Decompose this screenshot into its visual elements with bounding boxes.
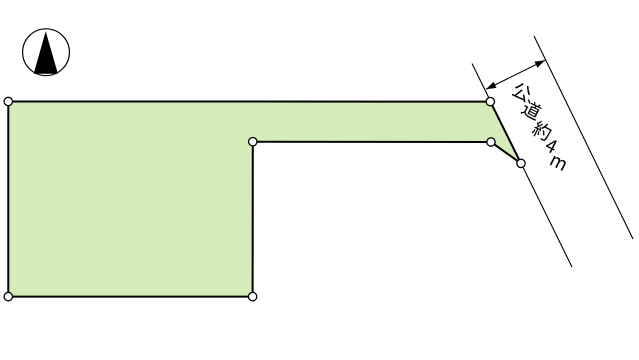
vertex circle F <box>248 292 256 300</box>
compass circle <box>23 29 70 76</box>
vertex circle A <box>4 97 12 105</box>
compass north triangle <box>34 31 58 74</box>
vertex circle E <box>249 138 257 146</box>
vertex circle C <box>517 159 525 167</box>
road width dimension arrow <box>486 60 545 89</box>
vertex circle G <box>4 292 12 300</box>
road edge line (left) <box>472 64 572 268</box>
vertex circle B <box>486 97 494 105</box>
vertex circle D <box>487 138 495 146</box>
road edge line (right) <box>534 36 633 239</box>
land parcel polygon <box>8 102 521 297</box>
road label 公道 約4m <box>511 81 567 171</box>
